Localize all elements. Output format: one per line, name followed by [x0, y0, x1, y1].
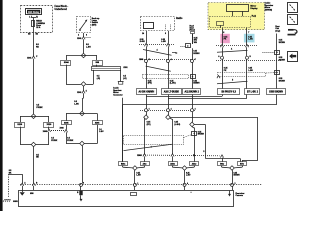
splice rejoin diamond [31, 142, 36, 147]
wire D pink label 0.35 PK [220, 34, 229, 43]
svg-text:B6 PK/GY 0.3: B6 PK/GY 0.3 [221, 91, 236, 93]
shield dashed outline lower [124, 136, 184, 145]
svg-text:L-BU: L-BU [99, 131, 104, 133]
wire relay to fuse [33, 18, 35, 20]
inline connector circles row A B C [140, 59, 196, 61]
wire F down [276, 34, 278, 89]
shield dashed outline upper [143, 75, 189, 79]
wire down from splice [83, 86, 85, 90]
svg-text:S305: S305 [64, 122, 68, 124]
radio dashed box [141, 17, 175, 31]
wire branch right [34, 116, 50, 118]
wire C continue down [192, 127, 194, 128]
diamond A [144, 115, 149, 120]
inline connector row [139, 44, 175, 46]
branch right [82, 113, 97, 115]
off-page arrow box 2 [288, 15, 298, 25]
svg-text:BK/WH: BK/WH [234, 175, 241, 177]
mirror connector stub [118, 81, 124, 83]
curved arrow symbol [288, 29, 294, 31]
connector ref box wire B [162, 89, 182, 95]
twisted pair marker mid [146, 66, 171, 71]
svg-text:L-BU: L-BU [248, 39, 253, 41]
camera internal block [131, 193, 137, 196]
mirror connector row dashed [216, 45, 258, 47]
svg-text:B7w: B7w [240, 163, 244, 165]
svg-text:E3: E3 [28, 34, 30, 36]
group3 circle pin 3 [231, 183, 234, 186]
svg-text:PK/BK: PK/BK [36, 107, 43, 109]
wire C down [192, 95, 194, 123]
svg-text:A11 BK/WH 2: A11 BK/WH 2 [185, 90, 200, 93]
connector ref box wire C [183, 89, 201, 95]
svg-text:(L-BU): (L-BU) [174, 124, 180, 126]
group1 wires [122, 166, 124, 168]
diamond C [190, 122, 195, 127]
svg-text:A10 LT-BU/BK: A10 LT-BU/BK [164, 90, 180, 93]
camera connector dashed boundary [20, 184, 262, 186]
svg-text:BK/WH: BK/WH [193, 83, 200, 85]
splice S110 diamond [31, 114, 36, 119]
inline connector [82, 37, 85, 40]
net stub arrow on B [172, 52, 176, 54]
svg-text:1: 1 [149, 108, 150, 110]
svg-text:(tray): (tray) [275, 29, 280, 32]
svg-text:Display: Display [250, 8, 258, 10]
dashed wire to G305 [8, 174, 10, 197]
group3 ref box right [238, 162, 247, 166]
svg-text:4: 4 [187, 182, 188, 185]
X905 circles row [140, 110, 196, 112]
svg-text:X908: X908 [60, 127, 64, 129]
wire down [83, 93, 85, 98]
svg-text:X905: X905 [43, 131, 47, 133]
svg-text:B7 L-BU 2: B7 L-BU 2 [247, 91, 259, 93]
scan border bar left edge [0, 0, 3, 211]
svg-text:A11w: A11w [192, 162, 197, 165]
right branch connector X205 [48, 127, 50, 130]
wire C down [192, 34, 194, 44]
svg-text:L-BU: L-BU [161, 41, 166, 43]
camera internal ground [20, 192, 25, 195]
wire B down [168, 46, 170, 88]
rejoin diamond x82 [66, 143, 80, 145]
wire from J-201 right [120, 70, 122, 82]
svg-text:A10w: A10w [170, 162, 175, 165]
svg-text:(PK): (PK) [148, 83, 152, 85]
wire A down through connector [146, 95, 148, 116]
svg-text:L-BU: L-BU [86, 47, 91, 49]
twisted pair marker 4 [143, 50, 172, 56]
dashed row [216, 60, 282, 62]
group1 ref box left [119, 162, 128, 166]
connector ref box wire A [137, 89, 157, 95]
page ref box left [61, 61, 71, 66]
svg-text:BK/WH: BK/WH [279, 42, 286, 44]
svg-text:15 A: 15 A [36, 26, 41, 29]
wire branch left [20, 116, 34, 118]
fuse F1 REAR CAMERA 15A [32, 21, 35, 27]
svg-text:2: 2 [195, 108, 196, 110]
svg-text:L-BU: L-BU [74, 103, 79, 105]
svg-text:G305: G305 [13, 201, 18, 203]
switch dashed box [77, 17, 91, 33]
splice pack on F 2 [275, 71, 280, 75]
camera connector pin B chevron [32, 183, 35, 186]
mirror internal wires [232, 11, 234, 16]
twisted pair marker lower 4 [124, 144, 173, 150]
wire 0.5 RD down from fuse [33, 32, 35, 56]
connector ref box wire E [245, 89, 260, 95]
mirror display module [227, 5, 249, 12]
svg-text:6: 6 [86, 35, 87, 37]
shield drain splice [191, 75, 196, 79]
group2 wires [172, 166, 174, 168]
fuse block underhood dashed box [21, 6, 53, 33]
group2 ref box right [190, 162, 199, 166]
group1 diamond [133, 166, 138, 171]
svg-text:X905: X905 [27, 58, 31, 60]
switch symbol [80, 21, 87, 30]
terminal [191, 32, 195, 34]
wire from switch [83, 33, 85, 37]
shield dashed outline D E [218, 73, 266, 77]
routing wire D to A [222, 95, 224, 97]
group3 feed from chevron [222, 158, 224, 162]
svg-text:5: 5 [86, 91, 87, 93]
diamond B [166, 115, 171, 120]
svg-text:BK/WH: BK/WH [279, 59, 286, 61]
junction dot on C [193, 154, 195, 156]
svg-text:PK/BK: PK/BK [67, 140, 74, 142]
camera signal arrow [229, 191, 231, 195]
svg-text:14: 14 [142, 32, 144, 35]
svg-text:B6w: B6w [220, 163, 224, 165]
svg-text:A9 DK-GN/WH: A9 DK-GN/WH [139, 90, 155, 93]
inline circles X [221, 56, 224, 59]
svg-text:Underhood: Underhood [55, 9, 68, 11]
svg-text:Connector: Connector [113, 94, 123, 97]
internal module small [217, 22, 224, 26]
svg-text:(PK): (PK) [147, 124, 151, 126]
svg-text:4: 4 [171, 107, 172, 110]
off-page arrow box 1 [288, 3, 298, 13]
page ref box right [93, 61, 103, 66]
ground pin A chevron [21, 183, 24, 186]
right branch down [97, 125, 99, 144]
svg-text:D-GN: D-GN [140, 41, 145, 43]
inside rearview mirror yellow box [208, 3, 265, 30]
group2 diamond [182, 166, 187, 171]
splice pack on F [275, 51, 280, 55]
svg-text:X905: X905 [77, 38, 81, 40]
ground G305 chassis symbol [3, 200, 11, 203]
svg-text:Camera: Camera [236, 195, 244, 197]
wire down to camera connector [33, 147, 35, 183]
svg-text:BK/WH: BK/WH [198, 134, 205, 136]
svg-text:X305: X305 [95, 122, 99, 124]
junction block J-201 [96, 65, 98, 67]
wire down to camera [82, 146, 84, 183]
splice diamond [81, 82, 86, 87]
mirror internal dashed box [210, 17, 251, 28]
branch right wire [84, 55, 98, 57]
ref box on F [267, 89, 286, 95]
svg-text:L-BU: L-BU [136, 175, 141, 177]
routing wire F long left [276, 95, 278, 105]
svg-text:L-BU: L-BU [186, 175, 191, 177]
wire A from radio [146, 31, 148, 44]
camera pin 6 circle [80, 183, 83, 186]
svg-text:Radio: Radio [176, 18, 183, 20]
wire B from radio [168, 31, 170, 44]
svg-text:BK/WH: BK/WH [279, 80, 286, 82]
svg-text:7: 7 [248, 32, 249, 34]
connector ref box wire D [218, 89, 240, 95]
svg-text:6: 6 [223, 32, 224, 34]
wire continue down [33, 59, 35, 114]
left arrow box [288, 52, 298, 62]
svg-text:(L-BU): (L-BU) [170, 83, 176, 85]
camera internal resistor [79, 191, 82, 195]
rearview camera box [19, 191, 234, 207]
ref box right branch [93, 121, 103, 125]
svg-text:IGN Relay: IGN Relay [28, 11, 40, 14]
relay K1 RUN relay [26, 9, 42, 15]
svg-text:(M/T): (M/T) [92, 24, 97, 26]
svg-text:J: J [37, 16, 38, 18]
group3 ref box left [218, 162, 227, 166]
group1 ref box right [141, 162, 150, 166]
page ref box left [15, 123, 25, 128]
left branch wire [20, 127, 22, 145]
wire C upper segment [192, 34, 194, 44]
svg-text:L-BU: L-BU [248, 70, 253, 72]
relay pins [31, 16, 33, 18]
wire D to circle [222, 47, 224, 56]
twisted pair marker top 4 [217, 50, 248, 52]
group1 circle pin 1 [133, 183, 136, 186]
group3 diamond [230, 166, 235, 171]
svg-text:(-R): (-R) [123, 78, 127, 80]
left branch chevron connector [66, 125, 68, 130]
svg-text:A9w: A9w [143, 162, 147, 165]
radio pin bracket [166, 25, 171, 30]
ground wire branch [22, 174, 24, 183]
group2 circle pin 4 [183, 183, 186, 186]
svg-text:2: 2 [78, 35, 79, 37]
svg-text:(ISRVM): (ISRVM) [265, 9, 273, 11]
left branch down [66, 65, 68, 84]
routing from diamond B right [170, 117, 257, 119]
svg-text:X905: X905 [139, 59, 143, 61]
radio internal module [144, 23, 154, 29]
routing from diamond C right [194, 124, 205, 126]
chevrons row lower [137, 154, 220, 157]
wire B down [168, 95, 170, 116]
svg-text:E5: E5 [36, 34, 38, 36]
svg-text:5: 5 [165, 33, 166, 35]
wire E to circle [246, 47, 248, 56]
wire E blue label 0.35 L-BU [244, 34, 255, 43]
svg-text:N08: N08 [30, 193, 33, 195]
svg-text:X905: X905 [77, 92, 81, 94]
group3 wires [221, 166, 223, 168]
splice pack box [186, 44, 191, 48]
inline connector X105 [32, 56, 35, 59]
svg-text:BK/WH: BK/WH [193, 53, 200, 55]
wire down to camera splice boxes [122, 98, 124, 162]
svg-text:G305 BK/WH: G305 BK/WH [269, 91, 283, 93]
svg-text:PK/BK: PK/BK [51, 140, 58, 142]
page ref box right [44, 123, 54, 128]
svg-text:J201: J201 [123, 67, 127, 69]
branch left [66, 113, 82, 115]
wire from J-201 left [93, 70, 95, 84]
svg-text:X905: X905 [137, 155, 141, 157]
branch left wire [66, 55, 84, 57]
group2 ref box left [169, 162, 178, 166]
inline connector X905 pin 5 [82, 91, 85, 94]
svg-text:(-R): (-R) [97, 78, 101, 80]
splice pack on C [192, 132, 197, 136]
svg-text:B20x: B20x [121, 163, 125, 165]
splice diamond S344 [81, 53, 86, 58]
twisted pair marker 5 [217, 81, 248, 84]
routing wire E to B [246, 95, 248, 99]
mirror pins out [222, 28, 224, 34]
wire A down [146, 46, 148, 88]
splice diamond upper x82 [80, 111, 85, 116]
svg-text:7L(u): 7L(u) [252, 15, 257, 17]
ref box left branch [62, 121, 72, 125]
